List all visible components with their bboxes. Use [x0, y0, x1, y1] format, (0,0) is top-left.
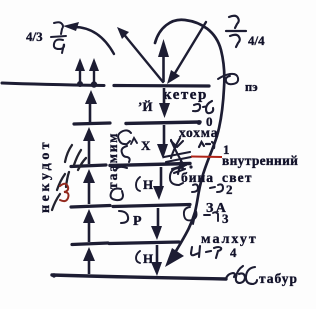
- central arrow keter to rung1: [163, 88, 166, 104]
- svg-text:’Й: ’Й: [138, 99, 152, 114]
- handwritten dash-lamed before 3: [204, 212, 218, 221]
- central arrow rung2 to rung3: [160, 167, 163, 187]
- svg-text:табур: табур: [259, 271, 298, 286]
- svg-text:Н: Н: [143, 177, 153, 192]
- handwritten fraction top-right: [226, 16, 246, 47]
- svg-text:Н: Н: [143, 251, 153, 266]
- handwritten mark before P: [119, 211, 128, 223]
- rung 3 line: [113, 205, 190, 207]
- left ladder top arrow below keter: [89, 98, 92, 122]
- svg-text:пэ: пэ: [245, 80, 258, 94]
- handwritten curl before H: [136, 177, 140, 191]
- svg-text:Х: Х: [141, 138, 151, 153]
- svg-text:некудот: некудот: [38, 139, 53, 213]
- handwritten marks near 4: [191, 246, 221, 258]
- handwritten curl before bottom H: [136, 251, 140, 263]
- handwritten pe-loop left: [111, 189, 123, 201]
- straight arrow up-left from keter crossing: [122, 32, 163, 82]
- svg-text:2: 2: [226, 182, 233, 197]
- central arrow rung4 to tabur: [156, 245, 159, 264]
- daat knot scribble on rung2: [164, 138, 193, 174]
- handwritten fraction gimel/bet top-left: [51, 22, 66, 53]
- svg-text:таамим: таамим: [105, 132, 120, 189]
- handwritten flourish left of X: [116, 130, 131, 170]
- left ladder arrow tabur to rung4: [88, 259, 91, 274]
- keter line left segment: [2, 83, 104, 86]
- rung 4 line: [109, 242, 179, 244]
- red curl scribble: [60, 184, 69, 201]
- keter line right segment: [114, 84, 209, 88]
- rung 1 hohma line: [126, 122, 200, 124]
- handwritten marks near 2: [192, 184, 223, 192]
- handwritten qof loop near 3: [184, 207, 197, 224]
- handwritten letters before tabur label: [226, 266, 257, 284]
- svg-text:4/3: 4/3: [26, 29, 43, 44]
- left ladder rung 4: [72, 243, 108, 245]
- svg-text:бина: бина: [181, 170, 214, 185]
- pe squiggle on curve: [218, 74, 238, 84]
- svg-text:Р: Р: [133, 214, 142, 229]
- tabur long line: [52, 275, 226, 279]
- left ladder arrow rung2 to rung1: [88, 140, 91, 164]
- handwritten caret before X: [131, 138, 137, 144]
- big pe spiral curve around right side: [155, 20, 224, 251]
- left ladder arrow rung4 to rung3: [88, 221, 91, 242]
- left ladder arrow rung3 to rung2: [88, 182, 91, 204]
- left ladder rung 2: [71, 165, 106, 167]
- handwritten kaf-bet right of yod: [193, 101, 213, 113]
- left ladder rung 3: [71, 206, 110, 208]
- left ladder rung 1: [74, 123, 110, 124]
- handwritten lamed-dash before 1: [199, 142, 214, 148]
- svg-text:3: 3: [222, 211, 229, 226]
- svg-text:внутренний: внутренний: [222, 153, 298, 168]
- double up arrows on keter line: [75, 58, 99, 88]
- rung 2 bina line: [110, 164, 190, 166]
- black slash scribbles: [52, 145, 86, 210]
- central arrow rung1 to rung2: [163, 125, 166, 146]
- central arrow rung3 to rung4: [157, 208, 160, 227]
- central axis top up arrow: [162, 54, 165, 82]
- curved arrow to fraction (swoosh): [74, 27, 114, 54]
- svg-text:4/4: 4/4: [248, 33, 265, 48]
- svg-text:кетер: кетер: [163, 87, 208, 103]
- straight arrow from top-right down to keter crossing: [172, 22, 206, 78]
- svg-text:хохма: хохма: [179, 125, 218, 140]
- red leader line: [191, 156, 222, 159]
- svg-text:4: 4: [230, 245, 237, 260]
- handwritten big kaf before bina: [170, 168, 183, 185]
